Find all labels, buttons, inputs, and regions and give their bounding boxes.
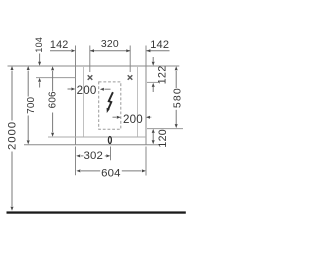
svg-text:606: 606 [48, 91, 59, 108]
electrical connection dashed box [99, 82, 121, 129]
dimension 200 right (box to mirror right edge) [113, 116, 117, 118]
extension line x=89.8 (top dim to left mount) [89, 46, 91, 73]
svg-text:120: 120 [157, 129, 169, 148]
mounting level extension line [36, 77, 76, 79]
mirror top edge with extension lines left and right [8, 65, 180, 67]
svg-text:604: 604 [101, 168, 121, 180]
dimension 200 left (mirror left edge to box) [68, 88, 72, 90]
dimension 120 (connection zone bottom to mirror bottom) [152, 129, 155, 133]
inner light band right [137, 66, 139, 137]
lightning bolt (electrical connection symbol) [108, 92, 113, 110]
svg-text:580: 580 [172, 87, 184, 108]
svg-text:142: 142 [50, 39, 69, 51]
svg-text:104: 104 [34, 37, 44, 53]
dimension 122 (right, top to connection zone top) [152, 57, 154, 62]
mirror left edge [75, 46, 77, 145]
svg-text:2000: 2000 [6, 121, 18, 150]
floor line [7, 211, 186, 213]
dimension 302 (left edge to connection centre) [76, 154, 80, 157]
mounting mark x left [88, 75, 93, 80]
dimension 320 top [90, 50, 130, 52]
dimension 142 top-right leader [146, 50, 169, 52]
dimension 604 (overall width) [76, 169, 80, 172]
dimension 142 top-left leader [50, 50, 71, 52]
dimension 2000 (floor to top) [11, 66, 14, 70]
dimension 606 (mount level to inner bottom) [51, 66, 54, 70]
svg-text:200: 200 [77, 84, 97, 97]
svg-text:122: 122 [156, 65, 168, 84]
extension lines below mirror [75, 147, 77, 176]
dimension 700 (mirror height) [27, 66, 30, 70]
mounting mark x right [128, 75, 133, 80]
svg-text:302: 302 [83, 150, 103, 162]
mirror bottom edge with extension lines [24, 144, 159, 146]
dimension 104 (top edge to mounting level) [39, 54, 41, 63]
inner bottom line + 606 extension [48, 136, 146, 138]
extension line x=130.2 (top dim to right mount) [129, 46, 131, 73]
inner light band left [83, 66, 85, 137]
svg-text:700: 700 [26, 96, 37, 113]
svg-text:200: 200 [123, 113, 143, 126]
mirror right edge [145, 46, 147, 145]
svg-text:142: 142 [150, 39, 169, 51]
svg-text:320: 320 [101, 39, 119, 50]
cable outlet oval [108, 137, 111, 144]
dimension 580 (top to connection zone bottom) [175, 66, 178, 70]
